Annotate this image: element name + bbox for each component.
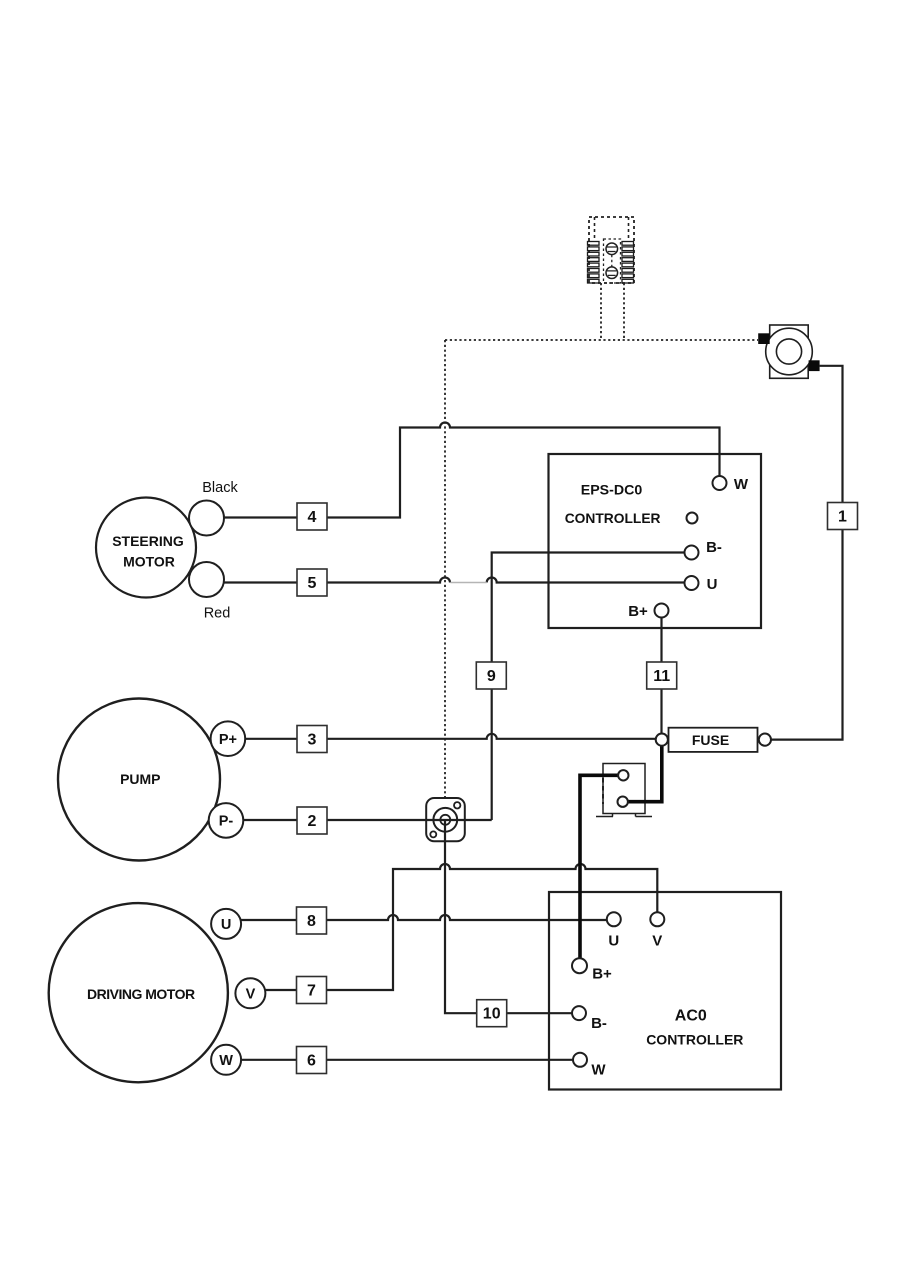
svg-text:6: 6 — [307, 1053, 316, 1070]
svg-text:STEERING: STEERING — [112, 533, 184, 549]
svg-text:V: V — [246, 987, 256, 1003]
svg-text:4: 4 — [308, 509, 317, 526]
svg-text:W: W — [219, 1053, 233, 1069]
svg-text:PUMP: PUMP — [120, 771, 160, 787]
svg-text:FUSE: FUSE — [692, 732, 729, 748]
svg-text:11: 11 — [653, 668, 670, 685]
svg-text:P-: P- — [219, 814, 234, 830]
svg-text:1: 1 — [838, 509, 847, 526]
svg-text:Black: Black — [202, 480, 238, 496]
svg-text:9: 9 — [487, 668, 496, 685]
svg-text:B+: B+ — [592, 966, 612, 983]
svg-text:B-: B- — [706, 539, 722, 556]
svg-text:MOTOR: MOTOR — [123, 553, 175, 569]
svg-text:CONTROLLER: CONTROLLER — [565, 511, 661, 526]
svg-text:Red: Red — [204, 606, 231, 622]
svg-text:7: 7 — [307, 983, 316, 1000]
svg-text:B-: B- — [591, 1015, 607, 1032]
svg-text:W: W — [734, 476, 749, 493]
svg-text:8: 8 — [307, 913, 316, 930]
svg-text:P+: P+ — [219, 732, 237, 748]
svg-text:U: U — [221, 917, 231, 933]
svg-text:3: 3 — [308, 732, 317, 749]
svg-text:2: 2 — [308, 813, 317, 830]
svg-text:AC0: AC0 — [675, 1007, 707, 1024]
svg-text:V: V — [652, 932, 662, 949]
svg-text:W: W — [591, 1062, 606, 1079]
svg-text:DRIVING MOTOR: DRIVING MOTOR — [87, 986, 195, 1002]
svg-text:U: U — [707, 576, 718, 593]
svg-text:10: 10 — [483, 1006, 501, 1023]
svg-text:B+: B+ — [628, 603, 648, 620]
svg-text:U: U — [608, 932, 619, 949]
svg-text:CONTROLLER: CONTROLLER — [646, 1031, 743, 1047]
svg-text:EPS-DC0: EPS-DC0 — [581, 483, 643, 499]
svg-text:5: 5 — [308, 575, 317, 592]
